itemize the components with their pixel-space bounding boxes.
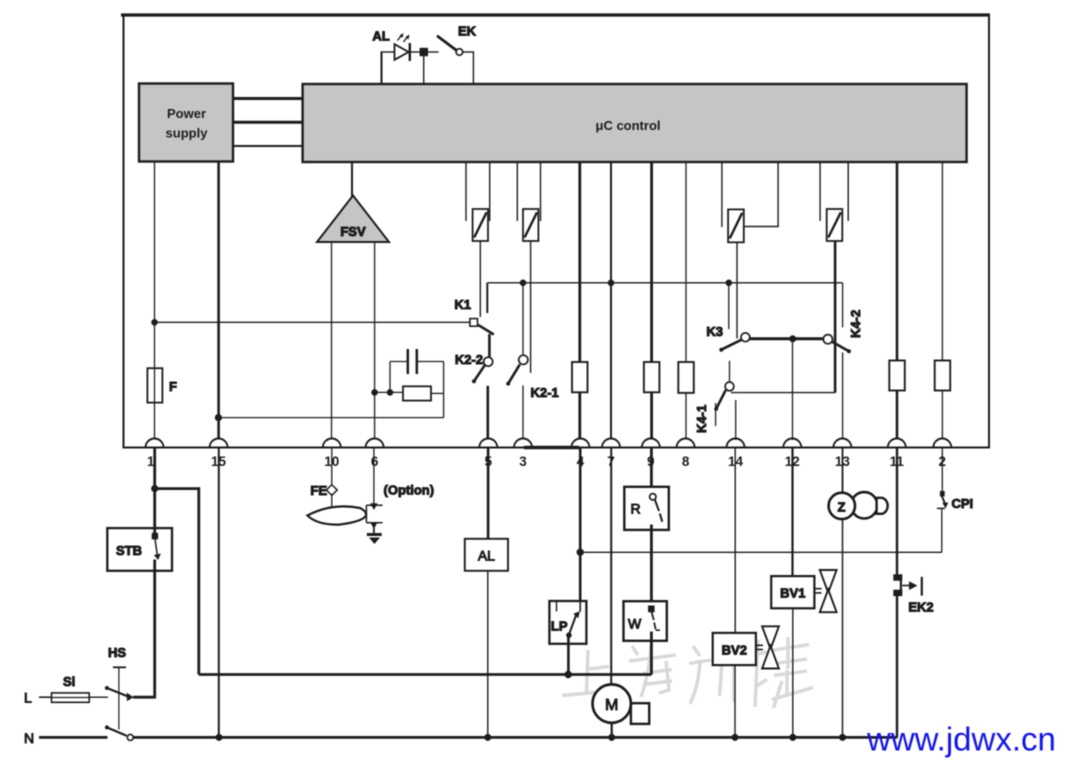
- svg-text:Z: Z: [838, 500, 846, 515]
- wire FE to flame: [331, 494, 333, 508]
- switch EK2 arrow lead: [902, 585, 909, 587]
- switch K2-2 arm: [474, 365, 485, 381]
- switch K4-1 contact circle: [725, 382, 734, 391]
- microcontroller box U-uC: [303, 84, 967, 162]
- terminal bump 8: [677, 439, 695, 448]
- watermark hanzi jie: [755, 640, 758, 707]
- svg-text:F: F: [169, 379, 177, 394]
- switch R arm: [655, 500, 659, 511]
- terminal bumps: [146, 439, 952, 448]
- valve BV1 body: [820, 570, 837, 593]
- electrode bracket side: [365, 505, 367, 522]
- wire RC left lead: [375, 391, 403, 393]
- switch HS lower arm: [107, 727, 127, 735]
- svg-text:STB: STB: [116, 543, 142, 558]
- switch K4-2 contact circle: [823, 335, 832, 344]
- wire FSV left leg to terminal 10: [331, 242, 333, 440]
- valve BV2 stem: [756, 644, 763, 646]
- wire terminal 12 to BV1: [791, 449, 793, 577]
- switch K2-2 contact circle: [484, 357, 493, 366]
- relay driver K4 coil box: [827, 209, 843, 241]
- watermark hanzi shang: [587, 650, 589, 692]
- svg-text:AL: AL: [478, 548, 495, 564]
- wire cap right lead: [418, 361, 444, 363]
- terminal bump 6: [366, 439, 384, 448]
- switch STB arm: [155, 539, 158, 557]
- wire terminal 10 to FE: [331, 449, 333, 487]
- wire terminal 5 to AL box thick: [487, 449, 490, 539]
- relay driver K1 coil box: [473, 209, 488, 241]
- wire bus corner down to K4-2 throw: [842, 283, 844, 328]
- wire uC to terminal 8: [685, 162, 687, 440]
- op-amp flame amplifier FSV: [317, 196, 389, 243]
- wire K4 coil output thick: [834, 241, 837, 393]
- terminal bump 2: [933, 439, 951, 448]
- wire K3 upper throw: [728, 283, 730, 329]
- wire terminal 14 to BV2: [734, 449, 736, 633]
- wire terminal 4 down thick: [579, 449, 582, 612]
- ignition Z circle: [829, 493, 855, 519]
- switch K1 arm: [478, 325, 494, 335]
- node LP bottom junction: [565, 671, 572, 678]
- svg-text:K4-2: K4-2: [848, 310, 863, 338]
- wire junction to EK: [428, 51, 439, 53]
- svg-text:6: 6: [371, 454, 379, 469]
- terminal bump 7: [602, 439, 620, 448]
- wire K1 arm to K2-2: [488, 334, 491, 357]
- switch K1 fixed contact square: [470, 319, 478, 327]
- electrode arrow lower: [370, 522, 377, 529]
- switch CPI tick: [937, 507, 945, 509]
- switch K2-1 contact circle: [519, 355, 528, 364]
- wire STB to L junction thick: [153, 560, 156, 699]
- svg-text:μC control: μC control: [595, 118, 660, 133]
- wire uC to terminal 9 thick: [650, 162, 653, 440]
- node bus/K3: [726, 280, 733, 287]
- svg-text:K2-1: K2-1: [531, 385, 559, 400]
- svg-text:BV1: BV1: [780, 586, 805, 601]
- wire N main thick: [133, 736, 897, 739]
- wire Si to HS: [89, 696, 108, 698]
- switch CPI arm: [941, 495, 945, 506]
- LP bracket: [556, 601, 558, 612]
- wire long feed to K1: [155, 321, 471, 323]
- switch HS T-bar: [113, 666, 126, 668]
- valve BV2 box: [713, 633, 756, 665]
- motor M capacitor box: [631, 703, 649, 724]
- switch K4-2 arm: [832, 342, 849, 352]
- wire uC to terminal 4 thick: [578, 162, 581, 440]
- node N/M: [608, 734, 615, 741]
- wire terminal 2 to CPI: [941, 449, 943, 492]
- svg-text:Si: Si: [63, 674, 75, 689]
- wire power supply to terminal 15 thick: [217, 162, 220, 441]
- thermostat STB box: [107, 528, 172, 571]
- switch CPI blob: [940, 491, 945, 496]
- switch K3 arm: [721, 340, 741, 350]
- switch W arm: [652, 612, 654, 620]
- terminal bump 4: [571, 439, 589, 448]
- svg-text:W: W: [628, 616, 642, 632]
- terminal bump 13: [833, 439, 851, 448]
- valve BV1 box: [771, 576, 814, 608]
- ground bar: [367, 533, 382, 536]
- switch HS upper arrowhead: [127, 693, 134, 702]
- wire terminal 12 bar lead: [792, 339, 794, 440]
- svg-text:K4-1: K4-1: [694, 405, 709, 433]
- switch R contact circle: [650, 494, 656, 500]
- wire cap left riser: [389, 362, 391, 393]
- svg-text:EK: EK: [458, 24, 477, 39]
- valve BV1 stem: [814, 588, 821, 590]
- svg-text:8: 8: [682, 454, 690, 469]
- switch EK2 bracket bottom: [893, 590, 902, 596]
- switch EK arm: [437, 36, 456, 50]
- wire power supply to terminal 1: [154, 162, 156, 441]
- resistor R1 box: [403, 386, 431, 400]
- electrode bracket top: [366, 504, 382, 506]
- wire K2-2 to terminal 5: [486, 386, 489, 440]
- svg-text:N: N: [24, 730, 34, 746]
- switch EK2 bracket top: [893, 574, 902, 580]
- terminal bump 11: [888, 439, 906, 448]
- node square junction AL/EK: [420, 48, 428, 56]
- wire terminal 15 to N: [218, 449, 220, 738]
- alarm AL box: [465, 539, 508, 571]
- svg-text:(Option): (Option): [384, 483, 435, 498]
- wire terminal 14 upper stub: [735, 400, 737, 440]
- node FE contact diamond: [326, 485, 337, 496]
- switch CPI arrowhead: [942, 503, 948, 509]
- wire L lead: [39, 696, 52, 698]
- svg-text:BV2: BV2: [722, 643, 747, 658]
- relay driver K2 coil box: [523, 209, 538, 241]
- wire terminal 9 to R box thick: [650, 449, 653, 487]
- node N/line15: [216, 734, 223, 741]
- wire branch right thick: [155, 487, 199, 490]
- bus wire power-to-uC bottom: [233, 145, 303, 147]
- wire uC to terminal 2: [941, 162, 943, 440]
- thermostat W box: [624, 601, 667, 641]
- wire resistor right lead: [431, 392, 444, 394]
- wire RC right riser: [443, 362, 445, 418]
- wire K2-1 to terminal 3: [522, 385, 524, 440]
- relay driver K3 coil box: [728, 209, 744, 242]
- electrode arrow upper: [370, 503, 377, 510]
- relay driver K1 coil leads: [465, 162, 467, 221]
- svg-text:Power: Power: [167, 106, 206, 121]
- svg-text:CPI: CPI: [952, 496, 974, 511]
- wire BV1 to N: [792, 608, 794, 737]
- wire AL loop top-left: [381, 51, 395, 53]
- bus wire power-to-uC middle: [233, 121, 303, 124]
- switch EK2 arrowhead: [909, 581, 918, 590]
- wire K4-1 lower stub: [715, 403, 717, 426]
- terminal bump 5: [479, 439, 497, 448]
- bus wire power-to-uC top: [233, 97, 303, 100]
- load resistor on line 2: [935, 361, 951, 391]
- node RC cap branch: [387, 389, 394, 396]
- wire CPI horizontal: [580, 551, 942, 553]
- outer enclosure box: [124, 15, 990, 448]
- node feed at line1: [151, 319, 158, 326]
- wire terminal 7 to motor: [610, 449, 612, 686]
- ignition Z pump circle right: [851, 492, 877, 518]
- wire bridge terminals 3-4: [524, 446, 579, 450]
- wire N left segment: [39, 736, 108, 739]
- wire K4 coil output to K4-1 horizontal: [731, 392, 835, 394]
- wire junction drop to uC box: [423, 56, 425, 84]
- wire Z to N: [842, 519, 844, 737]
- wire K3 coil output: [736, 242, 738, 338]
- wire uC to terminal 11 thick: [896, 162, 899, 440]
- wire terminal 1 down thick: [153, 449, 156, 537]
- load resistor on line 11: [889, 361, 905, 391]
- wire LP exit to junction: [567, 636, 570, 675]
- svg-text:EK2: EK2: [908, 600, 933, 615]
- wire CPI down: [941, 508, 943, 552]
- wire R to W thick: [650, 525, 653, 602]
- motor M circle: [593, 684, 631, 722]
- watermark hanzi hai: [632, 646, 638, 655]
- terminal bump 14: [727, 439, 745, 448]
- svg-text:LP: LP: [551, 619, 568, 634]
- wire cap left lead: [390, 361, 407, 363]
- wire bus left stub down: [486, 283, 488, 313]
- node N/AL: [484, 734, 491, 741]
- svg-text:3: 3: [519, 454, 527, 469]
- ground triangle: [369, 538, 380, 545]
- wire K3 to K4-1: [729, 361, 731, 382]
- switch HS upper pole pivot: [105, 686, 109, 690]
- node bus/K2-1: [520, 280, 527, 287]
- wire line4 inside LP: [579, 601, 581, 612]
- wire diode to junction: [410, 51, 420, 53]
- relay driver K3 coil left lead: [721, 162, 723, 227]
- terminal bump 10: [323, 439, 341, 448]
- watermark hanzi qi: [693, 646, 700, 656]
- wire uC to FSV apex: [351, 162, 353, 197]
- svg-text:www.jdwx.cn: www.jdwx.cn: [866, 721, 1056, 758]
- switch LP arm: [569, 615, 576, 635]
- wire K4-2 to terminal 13: [842, 352, 844, 440]
- svg-text:FSV: FSV: [340, 224, 366, 239]
- svg-text:K2-2: K2-2: [455, 352, 483, 367]
- wire K2-1 fixed lead: [522, 283, 524, 355]
- switch K3 contact circle: [741, 333, 750, 342]
- wire terminal 11 to EK2 thick: [896, 449, 898, 576]
- node bus/line7: [608, 280, 615, 287]
- terminal bump 15: [210, 439, 228, 448]
- wire FSV right leg to terminal 6: [374, 242, 376, 440]
- svg-text:R: R: [631, 501, 641, 517]
- flame sensor lens: [307, 506, 366, 524]
- wire W exit to branch: [650, 632, 653, 675]
- terminal bump 9: [642, 439, 660, 448]
- svg-text:K3: K3: [706, 324, 723, 339]
- svg-text:AL: AL: [372, 29, 389, 44]
- node line15/RC: [215, 414, 222, 421]
- wire AL loop right riser: [472, 51, 474, 84]
- switch HS linkage: [118, 668, 120, 730]
- node bar/terminal12: [789, 335, 796, 342]
- node N/BV1: [789, 734, 796, 741]
- wire motor to N: [611, 723, 613, 738]
- fuse Si: [52, 693, 90, 702]
- wire AL loop left riser: [381, 52, 383, 84]
- svg-text:K1: K1: [454, 297, 471, 312]
- wire uC to terminal 7: [610, 162, 612, 440]
- terminal bump 12: [783, 439, 801, 448]
- node N/BV2: [732, 734, 739, 741]
- bottom border line over bumps: [124, 447, 990, 449]
- outer box thick top border: [121, 13, 990, 16]
- wire AL box to N: [487, 571, 489, 738]
- switch HS lower pole pivot: [105, 725, 109, 729]
- terminal bump 3: [514, 439, 532, 448]
- svg-text:HS: HS: [108, 645, 126, 660]
- switch EK2 bracket side: [900, 580, 902, 592]
- switch EK contact circle: [456, 49, 463, 56]
- switch HS upper arm: [107, 688, 128, 697]
- svg-text:L: L: [24, 690, 32, 706]
- svg-text:FE: FE: [310, 483, 327, 498]
- relay thermostat R box: [624, 487, 669, 530]
- wire bus y283: [487, 282, 842, 284]
- load resistor on line 8: [678, 362, 694, 393]
- wire K2 coil output to K2-1 throw: [530, 241, 532, 373]
- node N/Z: [839, 734, 846, 741]
- wire terminal 13 to Z: [842, 449, 844, 493]
- switch K4-1 arm: [716, 390, 726, 409]
- pressure switch LP box: [549, 601, 586, 644]
- LED arrows: [398, 35, 403, 41]
- electrode stub: [373, 528, 375, 533]
- wire contact bar K3 to K4-2: [750, 337, 824, 340]
- relay driver K2 coil leads: [516, 162, 518, 221]
- wire branch down thick: [197, 487, 200, 674]
- wire K1 coil output: [479, 241, 481, 317]
- load resistor on line 9: [644, 362, 660, 392]
- wire BV2 to N: [734, 665, 736, 737]
- switch W blob: [648, 606, 655, 613]
- wire RC to line15: [218, 417, 443, 419]
- valve BV2 body: [762, 626, 779, 649]
- wire EK to right riser: [463, 51, 474, 53]
- wire terminal 6 to electrode: [373, 449, 375, 504]
- node line6/RC: [371, 389, 378, 396]
- switch STB blob: [152, 533, 158, 540]
- capacitor C1 plates: [407, 349, 410, 374]
- wire HS to STB line thick: [133, 696, 156, 699]
- switch HS lower contact circle: [127, 734, 133, 740]
- terminal bump 1: [146, 439, 164, 448]
- svg-text:supply: supply: [166, 126, 209, 141]
- electrode bracket bottom: [366, 522, 382, 524]
- power supply box U-PS: [139, 84, 233, 162]
- relay driver K4 coil leads: [819, 162, 821, 221]
- switch EK2 bar: [921, 577, 923, 596]
- svg-text:M: M: [605, 697, 618, 714]
- fuse F: [147, 368, 162, 402]
- wire K3 coil right lead: [744, 162, 778, 227]
- node line4/CPI wire: [577, 549, 584, 556]
- wire branch bottom horizontal thick: [199, 673, 652, 676]
- wire EK2 to N thick: [896, 592, 898, 738]
- ignition Z nub: [877, 498, 888, 514]
- LED diode AL: [395, 44, 409, 60]
- node branch at line 1: [151, 485, 158, 492]
- switch K2-1 arm: [508, 364, 520, 383]
- load resistor on line 4: [572, 362, 588, 392]
